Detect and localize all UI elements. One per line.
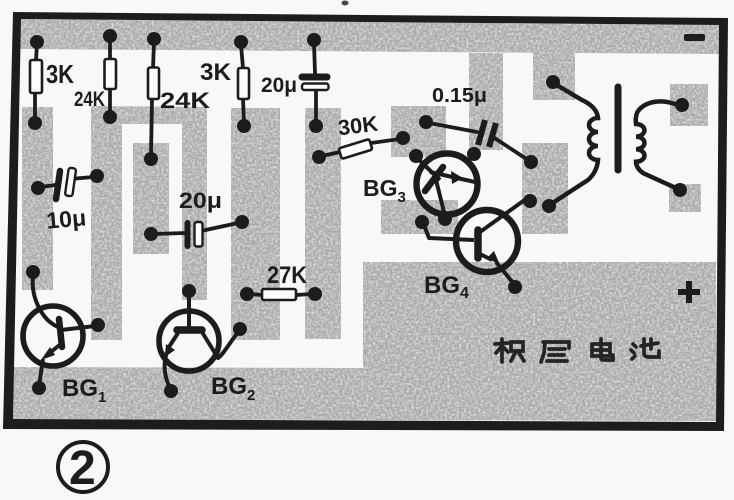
capacitor C4 0.15u plates: [478, 120, 485, 145]
svg-text:0.15μ: 0.15μ: [432, 85, 487, 107]
copper: strip B (transformer primary top): [533, 50, 575, 100]
svg-text:3K: 3K: [200, 59, 232, 86]
pad stripC primary bottom: [542, 199, 556, 213]
pad battery BG1 emitter: [32, 381, 46, 395]
pad stripC BG4 collector: [523, 194, 537, 208]
core: [615, 87, 622, 170]
transformer T1: [551, 84, 680, 204]
resistor R4 3K leads: [241, 45, 244, 123]
resistor R6 30K leads: [322, 139, 400, 156]
BG2 body circle: [159, 311, 219, 371]
pad top rail 5: [307, 33, 321, 47]
capacitor C2 20u leads: [154, 223, 238, 234]
BG4 base bar: [474, 230, 482, 258]
BG4 body circle: [456, 210, 518, 272]
svg-text:20μ: 20μ: [179, 188, 222, 213]
pad strip1 BG1 base: [26, 265, 40, 279]
BG4 emitter wire: [480, 254, 492, 260]
pad strip2 BG1 collector: [91, 318, 105, 332]
copper: top supply rail: [20, 19, 719, 54]
pad island R3: [144, 152, 158, 166]
copper: strip 4: [305, 108, 341, 339]
minus terminal label: [684, 34, 705, 41]
BG2 emitter lead to pad: [165, 352, 170, 388]
pad strip3 BG2 collector: [233, 322, 247, 336]
copper: strip 3: [231, 108, 280, 340]
copper grain texture: [13, 19, 719, 421]
primary winding with leads: [551, 84, 598, 204]
capacitor C2 20u plates: [185, 223, 191, 246]
pad P1 C4 left: [419, 115, 433, 129]
svg-text:20μ: 20μ: [261, 74, 297, 97]
pad stripC C4 right: [524, 155, 538, 169]
scan speck top: [342, 1, 349, 6]
resistor R1 3K leads: [35, 44, 37, 120]
resistor R3 24K body: [148, 68, 159, 100]
pad P1 BG3 base: [409, 149, 423, 163]
BG1 emitter wire: [46, 343, 62, 356]
pad island C2: [144, 227, 158, 241]
resistor R2 24k leads: [108, 39, 112, 114]
capacitor C3 20u plates: [302, 74, 327, 81]
copper: strip 2 with bridge and right leg: [91, 106, 207, 340]
resistor R2 24k body: [105, 59, 117, 89]
svg-text:24K: 24K: [160, 88, 210, 113]
resistor R4 3K body: [238, 68, 249, 99]
svg-text:2: 2: [69, 442, 96, 495]
pad arm BG4 base wire: [415, 215, 429, 229]
resistor R3 24K leads: [151, 42, 154, 156]
hanzi chi: [631, 339, 659, 359]
pad strip1 R1: [28, 116, 42, 130]
svg-text:24K: 24K: [74, 88, 105, 111]
BG2 base bar: [177, 326, 202, 334]
BG3 emitter wire: [430, 172, 475, 182]
hanzi ji: [495, 339, 524, 362]
secondary winding with leads: [636, 101, 680, 189]
BG2 emitter arrow: [165, 344, 175, 357]
pad top rail 4: [234, 35, 248, 49]
copper: transformer right bottom pad: [669, 184, 701, 212]
transistor BG4: [424, 199, 526, 284]
BG2 emitter wire: [167, 333, 178, 350]
pad strip2 C1: [90, 169, 104, 183]
BG1 base wire: [33, 277, 58, 327]
pad strip3 C2: [235, 215, 249, 229]
pad arm BG3 collector: [438, 212, 452, 226]
transistor BG3: [417, 154, 478, 217]
pad strip4 R5 right: [308, 287, 322, 301]
copper: battery area (L shape): [13, 262, 716, 421]
capacitor C1 10u leads: [41, 177, 93, 187]
pad P1 R6 right: [396, 131, 410, 145]
pad top rail 3: [147, 32, 161, 46]
copper traces (gray): [13, 19, 719, 421]
pad strip3 R4: [237, 119, 251, 133]
copper: strip C (collector net): [522, 143, 568, 234]
BG3 collector wire: [435, 176, 445, 216]
BG3 emitter arrow: [451, 171, 463, 184]
resistor R6 30K body: [339, 139, 373, 159]
pad battery BG2 emitter: [164, 384, 178, 398]
hanzi ceng: [541, 342, 569, 362]
pad strip4 C3: [309, 119, 323, 133]
resistor R1 3K body: [30, 60, 42, 93]
pad battery BG4 emitter: [508, 280, 522, 294]
transistor BG2: [159, 294, 239, 388]
BG1 collector wire: [61, 326, 95, 330]
pad stripB primary top: [546, 75, 560, 89]
BG4 collector wire: [480, 199, 526, 232]
svg-text:30K: 30K: [337, 112, 380, 141]
capacitor C1 10u plates: [56, 171, 60, 199]
pad leg BG2 base: [182, 284, 196, 298]
copper: pad P1 (BG3 base net): [391, 106, 446, 157]
BG4 base wire elbow: [424, 225, 474, 240]
copper: transformer right top pad: [670, 84, 708, 126]
copper: strip A (hanging, BG3 emitter net): [469, 53, 503, 150]
copper: arm pad (BG3 collector / BG4 base): [381, 200, 458, 234]
pad strip3 R5 left: [240, 287, 254, 301]
BG1 emitter lead to pad: [39, 359, 43, 386]
svg-text:3K: 3K: [46, 59, 74, 89]
hanzi dian: [592, 339, 613, 360]
pad strip1 C1: [31, 181, 45, 195]
BG4 emitter arrow: [487, 251, 500, 265]
pad top rail 1: [30, 35, 44, 49]
BG1 body circle: [23, 306, 83, 366]
plus terminal label: [678, 281, 700, 303]
copper: island strip (between): [133, 143, 169, 254]
capacitor C4 0.15u leads: [429, 123, 528, 160]
BG2 collector wire: [202, 331, 239, 358]
copper: strip 1 (left): [22, 107, 53, 290]
BG3 body circle: [417, 154, 478, 215]
resistor R5 27K leads: [250, 294, 312, 295]
BG3 base bar: [425, 167, 443, 191]
BG4 emitter lead to pad: [496, 262, 514, 284]
BG2 base wire: [187, 294, 191, 328]
svg-text:10μ: 10μ: [45, 204, 87, 233]
resistor R5 27K body: [262, 289, 296, 300]
BG3 base wire: [417, 158, 440, 180]
label battery (ji ceng dian chi) hand-drawn hanzi: [495, 339, 659, 362]
capacitor C3 20u leads: [314, 43, 316, 123]
pad strip2 R2: [103, 110, 117, 124]
transistor BG1: [23, 277, 95, 386]
pad transformer sec top: [675, 98, 689, 112]
BG1 base bar: [59, 319, 62, 347]
svg-text:27K: 27K: [267, 262, 308, 289]
pad stripA BG3 emitter: [467, 147, 481, 161]
pads (solder dots): [26, 29, 689, 398]
BG1 emitter arrow: [41, 347, 55, 360]
figure number circled 2: [58, 442, 108, 492]
pad transformer sec bottom: [673, 183, 687, 197]
pad top rail 2: [103, 29, 117, 43]
pad strip4 R6 left: [312, 150, 326, 164]
